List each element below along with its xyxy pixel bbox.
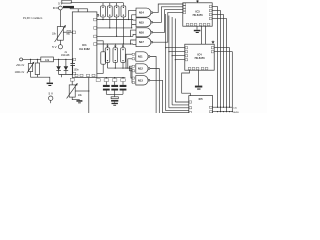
wire bus riser to IC4 pin2	[169, 16, 189, 108]
svg-text:N13: N13	[138, 78, 143, 82]
svg-text:74LS173: 74LS173	[194, 57, 205, 60]
supply S3	[48, 92, 53, 104]
resistor R3 pull-up	[114, 3, 119, 37]
wire IC1 ref resistor loop	[97, 41, 104, 74]
input terminal K1	[15, 58, 25, 74]
wire IC5 output line 1	[213, 106, 232, 108]
svg-text:1N4148: 1N4148	[61, 54, 70, 57]
wire P1 wiper to IC1	[63, 31, 72, 33]
resistor R2 pull-up	[107, 3, 112, 28]
latch IC4 74LS173	[185, 44, 214, 70]
wire N16 output to IC3	[153, 10, 183, 33]
svg-text:CA 3162: CA 3162	[79, 47, 90, 51]
svg-text:10k: 10k	[45, 58, 50, 62]
wire capacitor common	[106, 94, 123, 97]
latch IC3 74LS173	[183, 3, 212, 26]
wire N14 output to IC3	[153, 4, 183, 13]
diode D1	[56, 59, 61, 74]
wire P3 wiper	[75, 90, 89, 92]
wire BCD bus 1	[97, 19, 133, 21]
svg-text:5 V: 5 V	[52, 45, 57, 49]
svg-text:N12: N12	[138, 67, 143, 71]
svg-text:N15: N15	[139, 20, 144, 24]
svg-text:86459: 86459	[233, 112, 239, 113]
svg-text:10k: 10k	[78, 94, 83, 97]
wire bus to gate N16 inputs	[131, 30, 135, 36]
supply arrow above IC3	[196, 0, 199, 3]
ground G6	[76, 100, 82, 103]
capacitor C4	[111, 79, 118, 95]
wire input line	[23, 58, 41, 60]
svg-text:adj: adj	[66, 33, 70, 36]
wire IC3 to IC4 links	[202, 26, 206, 44]
ground G3 under IC3	[194, 26, 201, 33]
resistor R8 divider	[35, 59, 39, 74]
ground G1	[47, 83, 53, 86]
capacitor C5	[120, 79, 127, 95]
NAND gate N14	[135, 8, 153, 17]
svg-text:N11: N11	[138, 55, 143, 59]
NAND gate N12	[132, 64, 150, 73]
wire diode/cap common to ground G1	[59, 75, 73, 78]
wire C1 to IC1 top pins	[70, 8, 88, 12]
node divider taps	[30, 59, 31, 60]
wire BCD bus 2	[97, 27, 132, 29]
wire bus to gate N17 inputs	[131, 40, 135, 44]
trimpot P1	[52, 25, 72, 42]
NAND gate N13	[132, 76, 150, 85]
wire IC5 output line 2	[213, 111, 233, 113]
wire P1 bottom to supply S2	[59, 40, 61, 45]
wire digit lines to gate N13	[131, 68, 133, 83]
supply +5V S1 top-left	[53, 2, 62, 10]
wire IC3 outputs to right bus	[212, 7, 217, 108]
svg-text:N16: N16	[139, 30, 144, 34]
NAND gate N16	[135, 28, 153, 37]
wire divider bottoms to ground	[31, 72, 50, 83]
wire bus to gate N14 inputs	[129, 10, 135, 28]
wire N11 output down	[150, 57, 156, 114]
svg-text:N17: N17	[139, 40, 144, 44]
capacitor C1 top supply	[62, 0, 74, 8]
wire IC4 bottom pin to IC5 top	[182, 70, 191, 96]
wire IC4 outputs to right bus	[214, 48, 229, 107]
wire bus riser to IC4 pin3	[172, 17, 189, 105]
resistor R6 digit pull-up	[113, 44, 118, 63]
wire S1 to P1	[59, 10, 61, 27]
svg-text:+50 mV: +50 mV	[16, 64, 25, 67]
wire digit line bus	[108, 62, 133, 68]
wire IC1 bottom rail	[97, 77, 126, 79]
trimpot P3 gain	[67, 78, 83, 98]
wire N13 output to IC5	[150, 80, 189, 112]
ground G2	[112, 103, 118, 106]
supply +5V S2	[52, 45, 62, 49]
resistor R4 pull-up	[121, 3, 126, 44]
supply arrow above IC4	[211, 41, 214, 45]
pin box spare	[96, 79, 100, 82]
wire BCD bus 4	[97, 43, 133, 45]
resistor R7 reference	[101, 52, 106, 64]
diode D2	[64, 59, 69, 74]
NAND gate N17	[135, 38, 153, 47]
svg-text:IC1: IC1	[82, 43, 87, 47]
wire N12 output down	[150, 69, 159, 114]
wire bus riser to IC4 pin1	[166, 14, 189, 111]
resistor R9 10k series	[41, 57, 54, 62]
wire +5V rail	[71, 2, 124, 4]
svg-text:100n: 100n	[74, 70, 80, 72]
wire P3 bottom to ground	[72, 97, 79, 100]
wire digit lines to gate N12	[130, 66, 133, 71]
wire IC1 bottom long	[88, 77, 90, 113]
svg-text:0,5s: 0,5s	[233, 107, 237, 109]
svg-text:5 V: 5 V	[48, 92, 53, 96]
wire N17 output to IC3	[153, 12, 183, 42]
wire N15 output to IC3	[153, 7, 183, 22]
svg-text:1000 mV: 1000 mV	[15, 71, 25, 74]
resistor R1 pull-up	[101, 3, 106, 20]
capacitor C6	[111, 97, 118, 103]
svg-text:N14: N14	[139, 11, 144, 15]
NAND gate N11	[132, 52, 150, 61]
svg-text:10k: 10k	[52, 33, 57, 36]
wire digit lines to gate N11	[126, 54, 132, 68]
resistor R7c digit pull-up	[121, 44, 126, 63]
wire R9 to IC1	[53, 58, 72, 60]
resistor R5 digit pull-up	[105, 44, 110, 63]
svg-text:74LS173: 74LS173	[192, 14, 203, 17]
latch IC5	[189, 96, 213, 114]
trimpot P2	[27, 59, 34, 73]
wire bus riser to IC4 pin4	[175, 19, 189, 103]
op-amp IC1 CA3162 main box	[72, 12, 99, 78]
ground G4 under IC4	[195, 70, 202, 89]
NAND gate N15	[135, 18, 153, 27]
svg-text:IC5: IC5	[199, 97, 204, 101]
wire BCD bus 3	[97, 35, 133, 37]
svg-text:P1,P2 = multiturn: P1,P2 = multiturn	[23, 17, 43, 20]
wire bus to gate N15 inputs	[132, 20, 135, 25]
capacitor C2 100n	[70, 59, 79, 74]
capacitor C3	[103, 79, 110, 95]
